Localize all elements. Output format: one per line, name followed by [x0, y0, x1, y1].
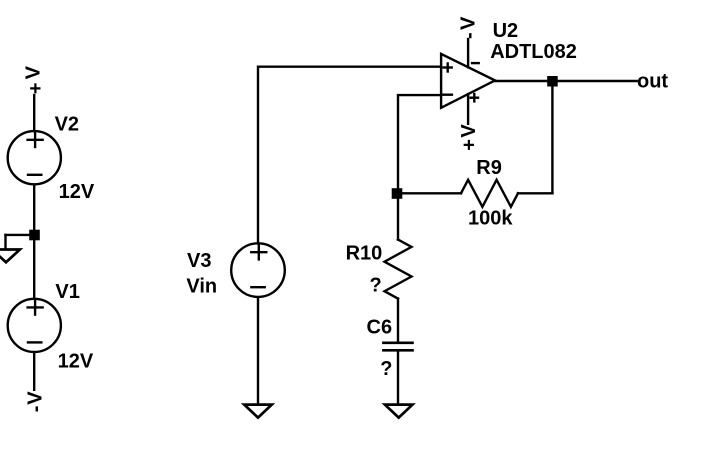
resistor R10 [385, 240, 412, 299]
svg-text:U2: U2 [493, 20, 519, 42]
svg-text:?: ? [380, 358, 392, 380]
op-amp V- power pin (top) [467, 39, 469, 67]
wire V1 bottom [33, 353, 35, 390]
label out [637, 71, 668, 93]
voltage source V1 [8, 299, 61, 352]
svg-text:V: V [23, 65, 45, 79]
capacitor C6 [383, 341, 412, 344]
label U2 [493, 20, 519, 42]
label 100k [468, 208, 513, 230]
svg-text:R10: R10 [346, 242, 383, 264]
svg-text:V: V [458, 16, 480, 30]
power flag -V (above op-amp, rotated label) [458, 16, 481, 39]
label 12V (V1 value) [58, 351, 94, 373]
wire V3 top rail to op-amp + input [258, 67, 441, 244]
node junction feedback [392, 188, 403, 199]
label ? (R10 value) [370, 274, 382, 296]
svg-text:out: out [637, 71, 668, 93]
svg-text:+: + [458, 139, 480, 151]
power flag +V (top left, rotated label) [23, 65, 47, 94]
node junction output [547, 76, 558, 87]
op-amp U2 triangle [441, 54, 495, 108]
voltage source V3 [231, 243, 285, 297]
label V2 [55, 113, 79, 135]
op-amp V+ power pin (bottom) [467, 94, 469, 124]
svg-text:12V: 12V [59, 181, 95, 203]
node junction V2/V1/ground [29, 230, 40, 241]
label V1 [55, 281, 79, 303]
svg-text:C6: C6 [367, 316, 393, 338]
svg-text:V: V [24, 391, 46, 405]
power flag +V (below op-amp, rotated label) [458, 124, 480, 151]
svg-text:12V: 12V [58, 351, 94, 373]
wire output down to R9 [551, 81, 553, 193]
label ADTL082 [490, 41, 577, 63]
op-amp - input mark [443, 93, 452, 95]
wire V3 bottom to ground [257, 298, 259, 404]
ground (under C6) [385, 405, 413, 418]
label ? (C6 value) [380, 358, 392, 380]
svg-text:-: - [458, 32, 480, 39]
ground (under V3) [244, 405, 272, 418]
svg-text:ADTL082: ADTL082 [490, 41, 577, 63]
label Vin [186, 276, 217, 298]
label R10 [346, 242, 383, 264]
ground (left, clipped) [0, 250, 20, 263]
power flag -V (bottom left, rotated label) [24, 391, 47, 413]
wire op-amp output to out [495, 80, 637, 82]
svg-text:?: ? [370, 274, 382, 296]
wire C6 to ground [397, 350, 399, 403]
svg-text:R9: R9 [476, 157, 502, 179]
label V3 [187, 250, 211, 272]
wire R9 right lead [518, 192, 552, 194]
svg-text:100k: 100k [468, 208, 513, 230]
svg-text:Vin: Vin [186, 276, 217, 298]
wire V+ rail to V2 top [33, 95, 35, 131]
label C6 [367, 316, 393, 338]
wire R9 left lead [398, 192, 461, 194]
svg-text:V: V [458, 124, 480, 138]
wire V2 bottom to V1 top [33, 185, 35, 298]
wire junction stub to ground [6, 234, 35, 236]
svg-text:+: + [25, 83, 47, 95]
svg-text:V2: V2 [55, 113, 79, 135]
wire R10 to C6 [397, 299, 399, 342]
svg-text:V3: V3 [187, 250, 211, 272]
label 12V (V2 value) [59, 181, 95, 203]
label R9 [476, 157, 502, 179]
svg-text:-: - [25, 406, 47, 413]
svg-text:V1: V1 [55, 281, 79, 303]
voltage source V2 [8, 131, 61, 184]
resistor R9 [461, 180, 518, 207]
op-amp + input mark [444, 66, 452, 68]
wire inverting input [398, 95, 441, 239]
